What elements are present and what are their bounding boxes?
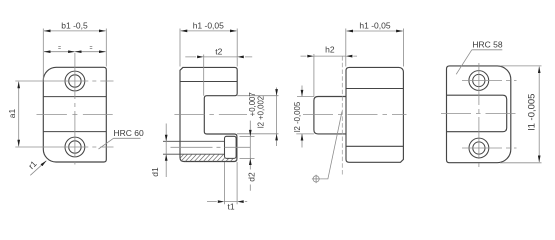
view1 mid centerline	[37, 113, 113, 115]
dimension l2 v2 arrows	[275, 89, 278, 140]
view1 hole top centerline / a1 extension	[15, 80, 113, 82]
view2 hatch section	[180, 154, 237, 161]
note HRC 58 leader	[456, 50, 472, 75]
svg-text:=: =	[58, 46, 61, 52]
dimension h2 line	[301, 55, 358, 57]
view1 vertical centerline	[74, 53, 76, 165]
view2 hole top line	[163, 140, 225, 142]
view2 mid centerline	[174, 114, 247, 116]
view2 hole bottom line	[163, 153, 225, 155]
dimension t2 arrows	[197, 56, 244, 59]
svg-text:=: =	[89, 46, 92, 52]
dimension d1 arrows	[165, 135, 168, 161]
svg-text:t1: t1	[227, 201, 234, 211]
leader r1	[30, 161, 46, 176]
dimension t2 extension	[203, 55, 205, 96]
dimension t1 line	[207, 201, 247, 203]
dimension l2 v3 extension top	[297, 96, 314, 98]
dimension l2 v2 extension bottom	[237, 133, 279, 135]
dimension h2 extension left	[313, 54, 315, 97]
view3 outline block	[346, 67, 403, 162]
view1 outline plate	[43, 67, 106, 162]
svg-text:d1: d1	[150, 167, 160, 177]
view3 mid centerline	[303, 114, 407, 116]
view4 mid centerline	[441, 113, 518, 115]
dimension h1 v3 line	[347, 30, 403, 32]
svg-text:b1 -0,5: b1 -0,5	[61, 20, 88, 30]
view1 hole bottom counterbore	[65, 137, 85, 157]
view4 hole top counterbore	[469, 71, 489, 91]
svg-text:l2 +0,002: l2 +0,002	[257, 96, 266, 128]
note HRC 58 underline	[472, 49, 503, 51]
view4 tongue face band	[447, 95, 507, 132]
svg-text:h1 -0,05: h1 -0,05	[193, 20, 224, 30]
dimension l2 v2 line	[276, 88, 278, 147]
view4 outline plate	[447, 66, 511, 163]
dimension b1 extension right	[105, 29, 107, 67]
dimension d2 arrows	[249, 130, 252, 165]
view4 vertical centerline	[478, 63, 480, 168]
svg-text:h2: h2	[325, 45, 335, 55]
dimension t1 extension right	[236, 162, 238, 204]
dimension t1 extension left	[223, 162, 225, 204]
view2 bushing centerline	[171, 146, 251, 148]
note HRC 60 underline	[114, 137, 141, 139]
svg-text:d2: d2	[246, 172, 256, 182]
svg-text:HRC 58: HRC 58	[472, 40, 503, 50]
dimension h1 v2 extension right	[236, 29, 238, 67]
dimension t1 arrows	[218, 200, 244, 203]
dimension l2 v2 extension top	[237, 95, 278, 97]
view4 hole bottom counterbore	[469, 138, 489, 158]
view3 tongue	[314, 97, 346, 134]
dimension l2 v3 arrows	[301, 90, 304, 141]
view3 joint hidden line	[341, 56, 343, 176]
dimension b1 line	[44, 30, 106, 32]
datum leader	[320, 112, 342, 179]
view1 hole bottom centerline / a1 extension	[15, 146, 113, 148]
view1 groove line top	[43, 96, 106, 98]
svg-text:l2 -0,005: l2 -0,005	[293, 101, 302, 132]
view3 face line top	[346, 88, 403, 90]
dimension l2 v3 line	[301, 86, 303, 148]
view2 bushing	[225, 136, 237, 158]
dimension h1 v3 extension left	[345, 29, 347, 67]
datum target symbol	[312, 175, 320, 183]
note HRC 60 leader	[99, 138, 114, 149]
dimension l2 v3 extension bottom	[296, 133, 314, 135]
dimension d2 extension bottom	[240, 157, 255, 159]
dimension d1 line	[165, 124, 167, 178]
dimension b1 extension left	[42, 29, 44, 81]
dimension d2 line	[249, 121, 251, 191]
dimension d2 extension top	[240, 136, 255, 138]
view4 hole bottom centerline	[462, 147, 517, 149]
dimension l1 extension bottom	[500, 162, 542, 164]
view4 hole top centerline	[462, 80, 517, 82]
svg-text:l1 -0,005: l1 -0,005	[527, 94, 538, 131]
svg-text:h1 -0,05: h1 -0,05	[359, 20, 390, 30]
svg-text:HRC 60: HRC 60	[114, 128, 145, 138]
dimension h1 v2 extension left	[179, 29, 181, 67]
view2 top face line	[180, 81, 237, 83]
dimension l1 extension top	[500, 65, 542, 67]
dimension a1 line	[18, 82, 20, 147]
dimension = right line	[75, 51, 106, 53]
dimension l1 line	[538, 67, 540, 163]
dimension h2 arrows	[307, 55, 352, 58]
dimension h1 v3 extension right	[402, 29, 404, 67]
svg-text:t2: t2	[215, 46, 222, 56]
view1 groove line bottom	[43, 131, 106, 133]
view2 outline C-shape	[180, 67, 237, 161]
dimension t2 line	[185, 56, 252, 58]
dimension h1 v2 line	[181, 30, 237, 32]
svg-text:a1: a1	[7, 109, 17, 119]
view1 hole top counterbore	[65, 71, 85, 91]
view3 face line bottom	[346, 145, 403, 147]
dimension = left line	[44, 51, 75, 53]
